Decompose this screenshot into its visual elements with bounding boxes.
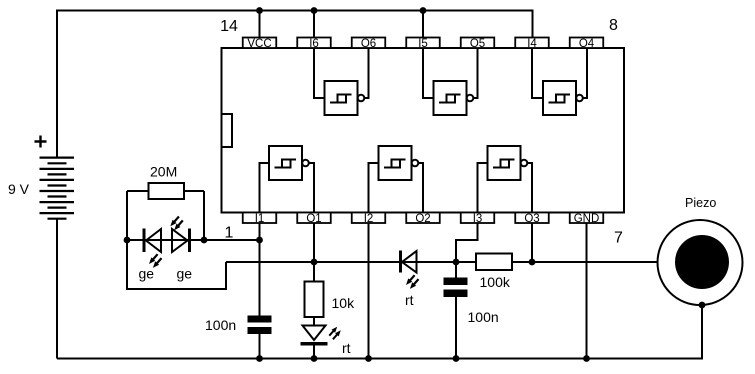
resistor R2 10k	[305, 282, 324, 318]
schmitt inverter gate 6 (pins I3/O3)	[478, 146, 533, 213]
svg-text:VCC: VCC	[247, 38, 271, 50]
pin label I4	[515, 38, 549, 51]
wire: O1 net horizontal run to piezo	[226, 261, 675, 263]
wire: GND pin down to ground rail	[586, 223, 588, 359]
capacitor C2 100n	[444, 278, 468, 298]
IC left-edge small rectangle	[222, 114, 233, 147]
schmitt inverter gate 2 (pins I5/O5)	[423, 48, 478, 115]
wire: O3 pin down to output net	[531, 223, 533, 262]
pin label I3	[461, 213, 495, 226]
wire: node 1 line through ge diodes to I1	[127, 239, 260, 241]
svg-text:1: 1	[225, 225, 234, 242]
wire: 20M/diode loop left and feedback from O1 net	[127, 191, 226, 289]
wire: battery negative to ground rail	[56, 219, 58, 359]
wire: ground rail (bottom) to piezo	[57, 305, 702, 359]
light arrows into D2	[170, 217, 183, 231]
schmitt inverter gate 3 (pins I4/O4)	[532, 48, 587, 115]
svg-text:100k: 100k	[480, 274, 511, 290]
pin label I2	[352, 213, 386, 226]
svg-text:100n: 100n	[205, 317, 236, 333]
svg-text:8: 8	[609, 17, 618, 34]
pin label O5	[461, 38, 495, 51]
svg-text:9 V: 9 V	[8, 181, 30, 197]
pin label O1	[297, 213, 331, 226]
pin label O4	[570, 38, 604, 51]
pin label O3	[515, 213, 549, 226]
svg-text:ge: ge	[177, 266, 193, 282]
svg-text:O2: O2	[415, 213, 430, 225]
svg-text:20M: 20M	[150, 164, 177, 180]
pin label I5	[406, 38, 440, 51]
wire: node to C2 and C2 to ground rail	[455, 262, 457, 359]
svg-text:ge: ge	[139, 266, 155, 282]
pin label O6	[352, 38, 386, 51]
pin label I1	[243, 213, 277, 226]
wire: positive supply rail (battery + to VCC/I6/I5/I4)	[57, 11, 533, 158]
IC U1 body (hex schmitt inverter)	[222, 48, 625, 213]
pin label GND	[570, 213, 604, 226]
resistor R3 100k	[476, 254, 512, 271]
battery B1 9V	[40, 158, 75, 219]
piezo disc	[675, 235, 729, 289]
diode D4 rt (cathode left)	[401, 251, 417, 273]
svg-text:7: 7	[614, 230, 623, 247]
wire: I1 pin down through node 1 to C1	[259, 223, 261, 359]
battery plus sign	[35, 136, 47, 148]
capacitor C1 100n	[248, 316, 272, 335]
wire: O1 pin down to 10k	[313, 223, 315, 359]
svg-text:14: 14	[220, 18, 238, 35]
pin label VCC	[243, 38, 277, 51]
svg-text:10k: 10k	[332, 295, 356, 311]
wire: I2 pin straight down to ground rail	[368, 223, 370, 359]
light arrows from D1	[149, 254, 162, 268]
diode D1 ge (left, cathode left)	[144, 229, 161, 253]
diode D2 ge (right, cathode right)	[172, 229, 190, 253]
svg-text:rt: rt	[405, 292, 414, 308]
pin label I6	[297, 38, 331, 51]
piezo transducer outer ring	[658, 220, 743, 305]
schmitt inverter gate 4 (pins I1/O1)	[260, 146, 315, 213]
resistor R1 20M	[127, 183, 204, 199]
schmitt inverter gate 5 (pins I2/O2)	[369, 146, 424, 213]
svg-text:Piezo: Piezo	[685, 196, 716, 210]
light arrows from D3	[329, 327, 341, 340]
svg-text:rt: rt	[342, 340, 351, 356]
pin label O2	[406, 213, 440, 226]
schmitt inverter gate 1 (pins I6/O6)	[314, 48, 369, 115]
svg-text:100n: 100n	[468, 309, 499, 325]
LED D3 rt (red)	[301, 326, 328, 344]
wire: I3 pin down, left, to node at C2	[456, 223, 478, 262]
light arrows from D4	[406, 275, 419, 289]
